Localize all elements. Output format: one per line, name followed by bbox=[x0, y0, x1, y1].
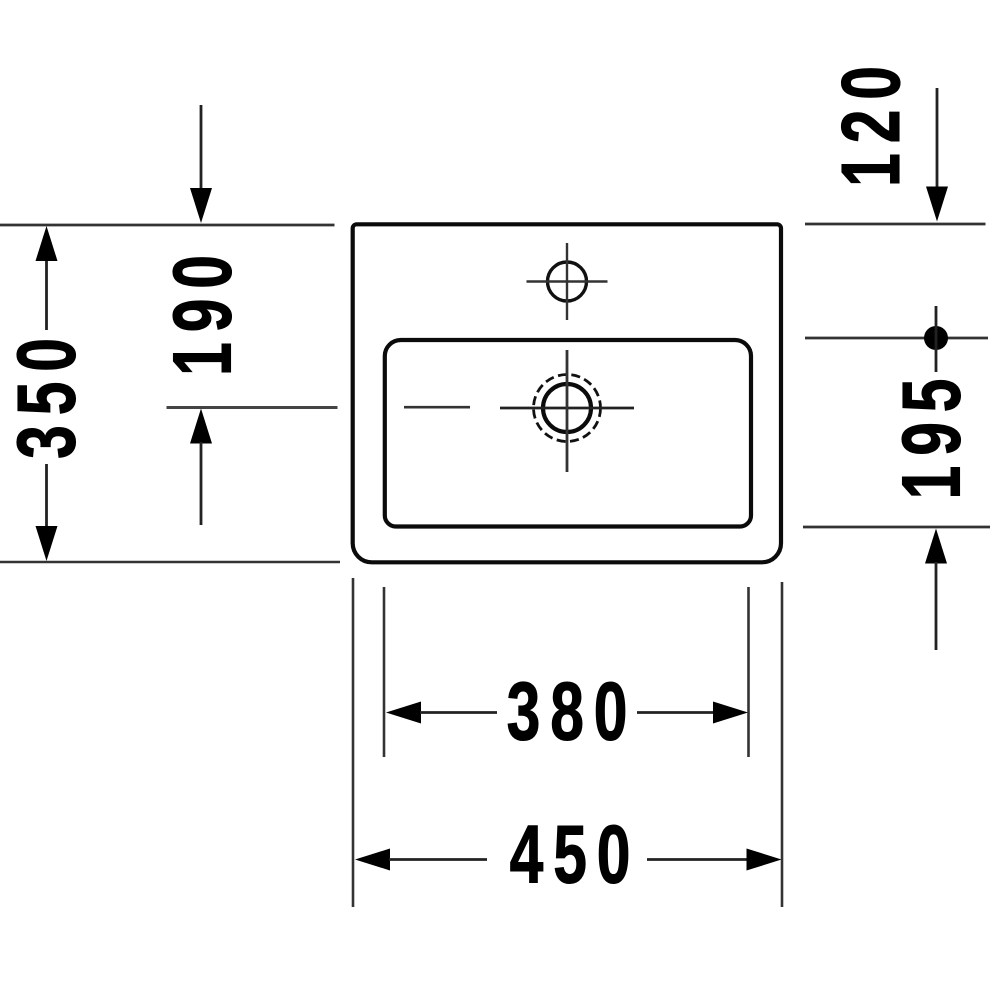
svg-text:380: 380 bbox=[507, 665, 638, 758]
svg-text:190: 190 bbox=[156, 245, 249, 376]
svg-text:195: 195 bbox=[885, 369, 978, 500]
svg-text:120: 120 bbox=[825, 56, 918, 187]
svg-text:450: 450 bbox=[510, 808, 641, 901]
svg-text:350: 350 bbox=[0, 328, 93, 459]
